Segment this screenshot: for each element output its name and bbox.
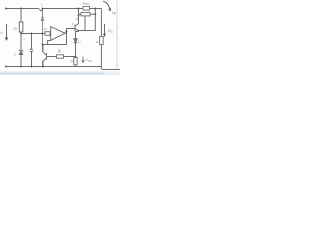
wire diode to node X bbox=[75, 43, 77, 56]
wire node X left bbox=[47, 56, 76, 58]
svg-text:R: R bbox=[14, 27, 17, 32]
junction dots bbox=[5, 8, 96, 68]
svg-text:U: U bbox=[0, 30, 3, 35]
wire output branch right bbox=[101, 9, 120, 70]
background bbox=[0, 0, 120, 75]
svg-text:I: I bbox=[24, 37, 25, 42]
wire bottom rail bbox=[6, 66, 101, 68]
capacitor C1 bbox=[30, 49, 33, 51]
op-amp U1 triangle bbox=[51, 27, 65, 41]
resistor R3 base bbox=[57, 55, 64, 58]
wire pot tap bbox=[84, 16, 86, 31]
wire reference branch top bbox=[20, 9, 22, 67]
faint right edge band bbox=[116, 0, 117, 70]
svg-text:P: P bbox=[76, 17, 79, 22]
current arrow IL curved bbox=[103, 1, 111, 12]
zener diode ZD2 bbox=[19, 50, 23, 55]
voltage arrow U2 bbox=[103, 24, 106, 37]
diode D1 bbox=[74, 39, 78, 43]
resistor Rv at plus input bbox=[45, 32, 50, 36]
wire feedback loop bbox=[43, 32, 67, 45]
wire T1 collector bbox=[78, 9, 80, 24]
svg-text:I: I bbox=[112, 10, 113, 15]
svg-text:Rsc: Rsc bbox=[83, 1, 90, 6]
wire ref node horizontal bbox=[21, 33, 45, 35]
wire top rail bbox=[6, 8, 101, 10]
wire node X down to resistor bbox=[75, 57, 77, 67]
svg-text:R: R bbox=[44, 27, 47, 32]
wire opamp output to base bbox=[65, 29, 75, 34]
svg-text:BE: BE bbox=[88, 59, 92, 63]
resistor R4 vertical bbox=[74, 58, 77, 65]
zener diode ZD1 bbox=[41, 17, 44, 20]
voltage arrow UBE bbox=[82, 57, 85, 64]
wire T1 emitter node to diode bbox=[76, 31, 79, 39]
resistor Rsc bbox=[83, 7, 90, 11]
svg-text:I: I bbox=[41, 3, 42, 7]
wire opamp plus stub bbox=[49, 33, 52, 35]
wire capacitor branch bbox=[31, 34, 33, 67]
svg-text:2: 2 bbox=[111, 31, 113, 35]
current arrow Ie on rail bbox=[39, 9, 44, 12]
wire inverting input stub bbox=[48, 41, 51, 45]
wire zener mid branch bbox=[42, 9, 44, 67]
transistor T2 bbox=[43, 52, 47, 62]
wire T2 emitter down bbox=[42, 61, 44, 67]
wire rsc parallel pot bbox=[79, 13, 96, 15]
wire T2 collector bbox=[42, 45, 44, 53]
resistor R1 bbox=[19, 22, 23, 32]
wire T1 emitter to output riser bbox=[79, 9, 96, 31]
svg-text:R: R bbox=[71, 59, 74, 64]
voltage arrow U1 bbox=[5, 24, 8, 41]
bottom blue strip bbox=[0, 72, 104, 76]
transistor T1 bbox=[75, 24, 79, 32]
potentiometer P1 bbox=[81, 13, 90, 16]
resistor RL load bbox=[100, 37, 104, 45]
